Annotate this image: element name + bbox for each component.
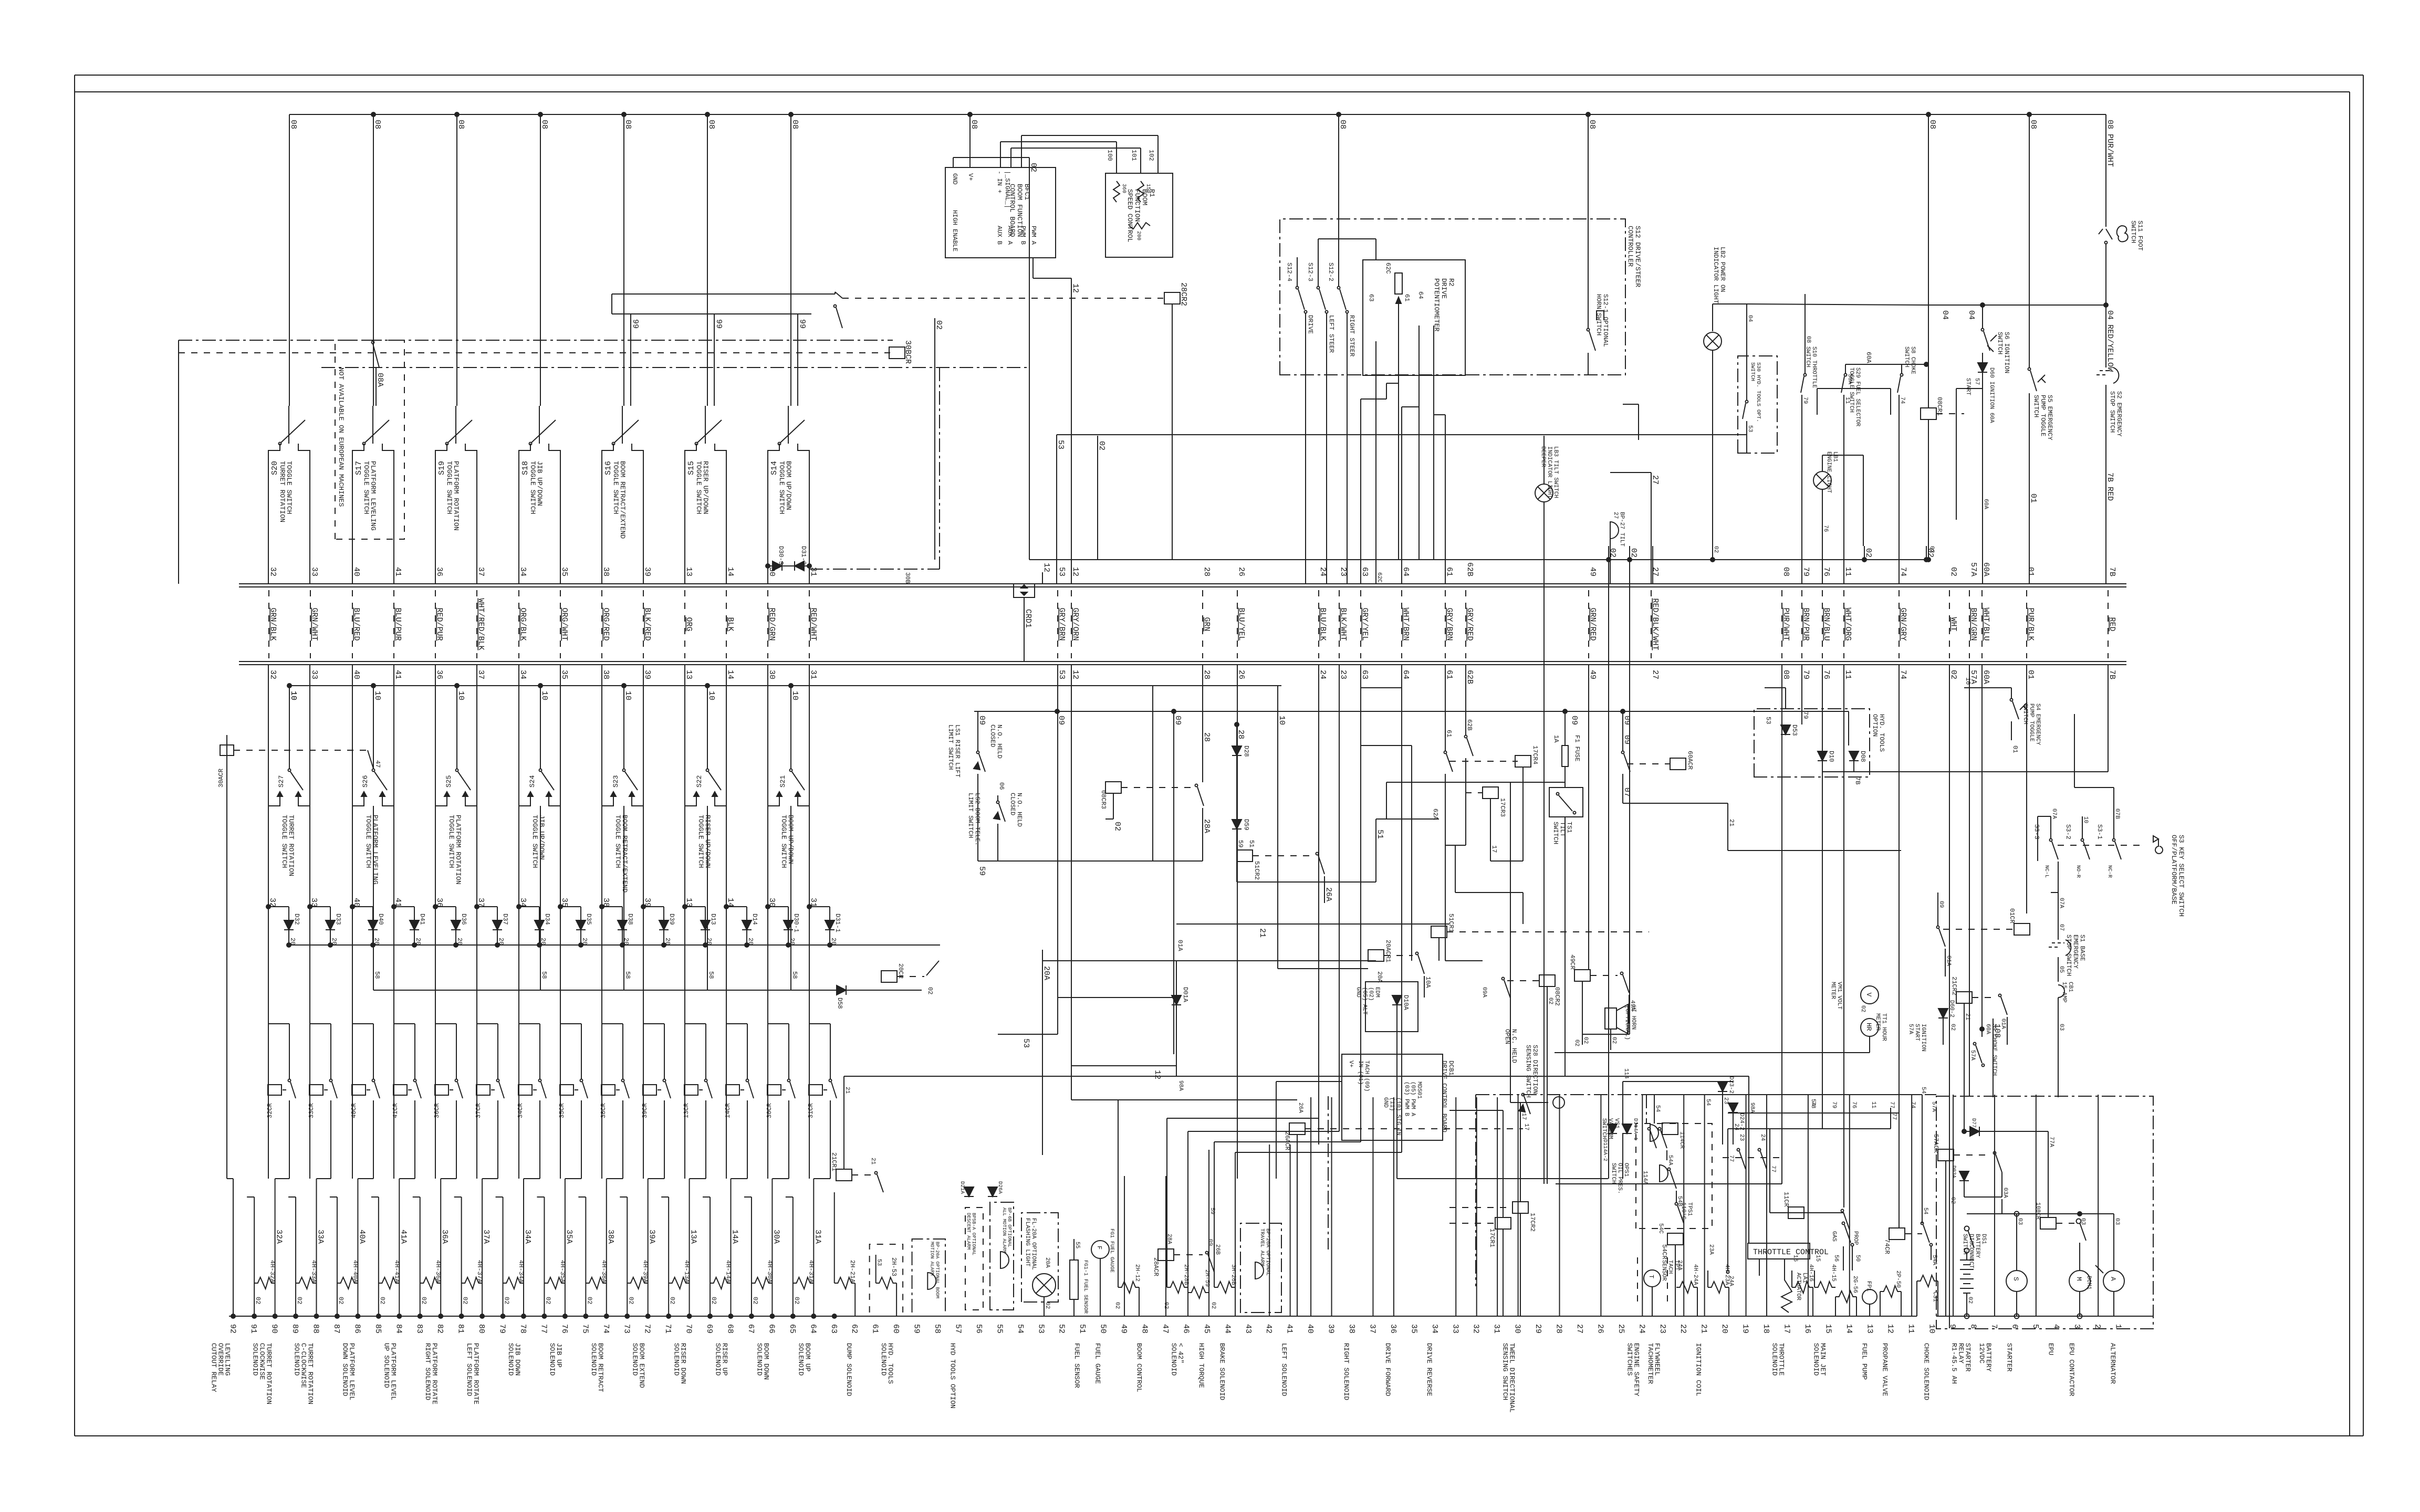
svg-text:07A: 07A <box>2058 898 2064 908</box>
beeper BP-27 TILT <box>1610 512 1625 560</box>
svg-text:53: 53 <box>1056 440 1065 449</box>
board EDM <box>1355 982 1418 1032</box>
svg-text:47: 47 <box>1161 1324 1170 1333</box>
key switch S3 KEY SELECT SWITCH <box>2033 808 2185 917</box>
diode D01A <box>1172 940 1189 1029</box>
wire column 31 lower half <box>1497 1097 1498 1316</box>
svg-text:10: 10 <box>707 691 716 700</box>
svg-text:76: 76 <box>1822 525 1829 532</box>
svg-text:24: 24 <box>1318 567 1327 576</box>
svg-text:15: 15 <box>1814 1255 1821 1262</box>
wire 36 box pin left <box>435 577 436 584</box>
svg-text:60A: 60A <box>1981 670 1990 684</box>
solenoid coil 4H-41A <box>379 1260 400 1289</box>
switch VS1 VACUUM SWITCH <box>1601 1095 1673 1165</box>
svg-text:S12-2: S12-2 <box>1327 262 1334 281</box>
svg-text:ALTERNATOR: ALTERNATOR <box>2109 1343 2117 1384</box>
svg-text:D114A-2: D114A-2 <box>1602 1139 1608 1161</box>
svg-text:D33: D33 <box>335 913 342 925</box>
svg-text:4H-39A: 4H-39A <box>642 1260 649 1283</box>
svg-text:10: 10 <box>373 691 382 700</box>
terminal 60A crossing wire WHT/BLU <box>1981 562 1990 684</box>
svg-text:08: 08 <box>969 120 978 129</box>
wire 20 horizontal bus <box>287 943 940 947</box>
wire 77A S4 connection <box>2001 1172 2002 1197</box>
svg-text:01A: 01A <box>1945 955 1952 966</box>
svg-text:D60 IGNITION 60A: D60 IGNITION 60A <box>1988 367 1995 423</box>
svg-text:V+: V+ <box>1348 1060 1354 1067</box>
svg-text:62B: 62B <box>1466 719 1473 731</box>
terminal 79 crossing wire BRN/PUR <box>1801 567 1810 679</box>
svg-text:F1 FUSE: F1 FUSE <box>1573 735 1581 761</box>
svg-text:38: 38 <box>601 670 610 679</box>
svg-text:08: 08 <box>1781 567 1790 576</box>
svg-text:FG1-1 FUEL SENSOR: FG1-1 FUEL SENSOR <box>1082 1260 1088 1314</box>
coil 2P-50 PROPANE <box>1880 1270 1901 1316</box>
svg-text:39: 39 <box>1327 1324 1336 1333</box>
wire 37 box pin right <box>476 577 477 584</box>
wires 100 101 102 BFC1 to R1 <box>1000 135 1158 173</box>
svg-text:28: 28 <box>1555 1324 1563 1333</box>
svg-text:60A: 60A <box>1981 562 1990 576</box>
svg-text:60ACR: 60ACR <box>1686 751 1694 770</box>
wire 79 column lower <box>1801 665 1802 724</box>
wire 34A to solenoid <box>523 1179 532 1316</box>
wire 28 column and relay 08CR3 <box>1100 665 1211 861</box>
svg-text:LS1 RISER LIFTLIMIT SWITCH: LS1 RISER LIFTLIMIT SWITCH <box>947 724 961 778</box>
switch S1 BASE EMERGENCY STOP SWITCH <box>2049 892 2086 982</box>
toggle switch S18 box <box>519 444 560 577</box>
dashed box around TPS area <box>1636 1123 1712 1228</box>
diode D03A <box>1950 1165 2008 1198</box>
terminal 12 crossing wire GRY/ORN <box>1071 567 1080 679</box>
svg-text:14CR: 14CR <box>724 1103 732 1118</box>
svg-text:33CR: 33CR <box>308 1103 315 1118</box>
terminal 33 crossing wire GRN/WHT <box>310 567 319 679</box>
svg-text:T: T <box>1647 1275 1655 1278</box>
relays 17CR4 17CR3 <box>1465 745 1539 853</box>
diode D58 on 58 bus <box>836 985 846 1009</box>
svg-text:34CR: 34CR <box>517 1103 524 1118</box>
solenoid coil 4H-30A <box>752 1260 773 1289</box>
terminal 40 crossing wire BLU/RED <box>352 567 361 679</box>
svg-text:D41: D41 <box>419 913 426 925</box>
svg-text:12: 12 <box>1153 1070 1162 1079</box>
wire column 16 lower half <box>1808 1095 1809 1316</box>
toggle switch S19 box <box>435 444 477 577</box>
relay 51CR1 <box>1431 913 1649 961</box>
svg-text:FL-20A OPTIONALFLASHING LIGHT: FL-20A OPTIONALFLASHING LIGHT <box>1024 1218 1037 1270</box>
svg-text:51: 51 <box>1248 840 1255 847</box>
terminal 35 crossing wire ORG/WHT <box>560 567 569 679</box>
svg-text:BLK/RED: BLK/RED <box>643 608 652 641</box>
terminal 74 crossing wire GRN/GRY <box>1899 567 1907 679</box>
svg-text:28A: 28A <box>1202 819 1211 833</box>
svg-text:DUMP SOLENOID: DUMP SOLENOID <box>845 1343 853 1396</box>
svg-text:39: 39 <box>643 567 652 576</box>
wire 13 box pin left <box>684 577 685 584</box>
wire 02 long column lower <box>1949 665 1950 1328</box>
svg-text:S26: S26 <box>361 775 369 787</box>
relay 60ACR <box>1621 709 1728 803</box>
wire 54 horizontal feed <box>1654 1087 1926 1223</box>
wire column 49 lower half <box>1124 1176 1125 1316</box>
wire 02 return 4H-35A <box>537 1197 567 1318</box>
wire 7B column lower <box>1854 665 2108 772</box>
svg-text:14: 14 <box>1844 1324 1853 1333</box>
svg-text:30BCR: 30BCR <box>903 340 912 364</box>
svg-text:D13: D13 <box>710 913 717 925</box>
svg-text:02: 02 <box>1114 1302 1120 1309</box>
svg-text:3: 3 <box>2072 1324 2081 1329</box>
svg-text:CHOKE SOLENOID: CHOKE SOLENOID <box>1923 1343 1931 1400</box>
switch S11 FOOT SWITCH <box>2099 220 2144 305</box>
svg-text:PROP: PROP <box>1852 1231 1859 1245</box>
svg-text:D40: D40 <box>377 913 384 925</box>
labels 78 79 76 11 77 74 57A row <box>1810 1101 1937 1112</box>
svg-text:55: 55 <box>1074 1242 1080 1248</box>
svg-text:50: 50 <box>1099 1324 1108 1333</box>
wire column 5 lower half <box>2036 1095 2037 1316</box>
wire 27 column upper <box>1610 472 1660 584</box>
svg-text:33: 33 <box>310 567 319 576</box>
coil 3H-26B <box>1214 1244 1236 1316</box>
svg-text:61: 61 <box>871 1324 880 1333</box>
svg-text:27: 27 <box>1651 670 1660 679</box>
svg-text:37CR: 37CR <box>475 1103 482 1118</box>
board DCB1 DRIVE CONTROL BOARD <box>1342 1054 1455 1140</box>
wire column 28 lower half <box>1559 1095 1560 1316</box>
svg-text:39: 39 <box>643 670 652 679</box>
svg-text:73: 73 <box>622 1324 631 1333</box>
svg-text:BLK: BLK <box>726 617 735 632</box>
svg-text:2H-21A: 2H-21A <box>849 1260 856 1283</box>
svg-text:88: 88 <box>311 1324 320 1333</box>
svg-text:12: 12 <box>1886 1324 1895 1333</box>
bottom ground bus 02 <box>229 1316 1917 1317</box>
svg-text:13: 13 <box>684 670 693 679</box>
svg-text:10: 10 <box>1964 677 1972 685</box>
svg-text:68: 68 <box>726 1324 735 1333</box>
svg-text:61: 61 <box>1445 567 1454 576</box>
svg-text:27: 27 <box>1651 475 1660 485</box>
svg-text:54: 54 <box>1922 1207 1928 1215</box>
wire 17 runs <box>1449 819 1527 1217</box>
svg-text:54: 54 <box>1810 1099 1816 1106</box>
svg-text:THROTTLESOLENOID: THROTTLESOLENOID <box>1770 1343 1785 1376</box>
svg-text:67: 67 <box>746 1324 755 1333</box>
svg-text:08CR2: 08CR2 <box>1553 987 1561 1006</box>
wire 26B 59 vertical stubs <box>1209 1150 1215 1293</box>
svg-text:57: 57 <box>1974 378 1980 385</box>
svg-text:39A: 39A <box>648 1230 656 1244</box>
svg-text:S28 DIRECTIONSENSING SWITCH: S28 DIRECTIONSENSING SWITCH <box>1525 1045 1539 1098</box>
svg-text:TOGGLE SWITCHTURRET ROTATION: TOGGLE SWITCHTURRET ROTATION <box>278 461 293 522</box>
svg-text:04: 04 <box>1967 310 1976 320</box>
svg-text:25: 25 <box>1616 1324 1625 1333</box>
relays 17CR2 17CR1 <box>1449 1202 1536 1316</box>
svg-text:08CR3: 08CR3 <box>1100 790 1107 809</box>
wire 13A to solenoid <box>689 1179 698 1316</box>
svg-text:BOOM CONTROL: BOOM CONTROL <box>1135 1343 1143 1392</box>
svg-text:60A: 60A <box>1865 352 1872 363</box>
svg-text:35A: 35A <box>565 1230 573 1244</box>
svg-text:07B: 07B <box>2114 808 2120 819</box>
svg-text:100: 100 <box>1106 150 1113 161</box>
coils 4H-24A 4H-23A 4H-16 4H-15 <box>0 0 1 1</box>
svg-text:54: 54 <box>1705 1099 1711 1106</box>
tilt switch TS1 <box>1549 787 1583 861</box>
svg-text:76: 76 <box>1851 1101 1857 1108</box>
svg-text:40: 40 <box>352 670 361 679</box>
svg-text:77: 77 <box>539 1324 548 1333</box>
svg-text:21: 21 <box>1728 819 1735 826</box>
svg-text:2P-50: 2P-50 <box>1895 1270 1901 1288</box>
svg-text:58: 58 <box>373 971 381 979</box>
wire 37 column to jog <box>476 806 477 1179</box>
svg-text:86: 86 <box>352 1324 361 1333</box>
diode D40 stub <box>350 905 384 945</box>
svg-text:D23-2: D23-2 <box>1728 1076 1734 1094</box>
svg-text:57A: 57A <box>1969 1050 1976 1060</box>
svg-text:41: 41 <box>393 567 402 576</box>
svg-text:HYD TOOLS OPTION: HYD TOOLS OPTION <box>948 1343 956 1409</box>
svg-text:8: 8 <box>1969 1324 1978 1329</box>
lamp LB3 TILT SWITCH INDICATOR LIGHT <box>1535 436 1559 560</box>
svg-text:51CR2: 51CR2 <box>1253 861 1260 880</box>
svg-text:38: 38 <box>601 567 610 576</box>
svg-text:09A: 09A <box>1481 987 1487 997</box>
svg-text:66: 66 <box>767 1324 776 1333</box>
svg-text:79: 79 <box>1831 1101 1837 1108</box>
svg-text:S24: S24 <box>528 775 536 787</box>
relay contact 35CR <box>558 806 588 1179</box>
svg-text:02: 02 <box>926 987 934 994</box>
switch S29 FUEL SELECTOR TOGGLE SWITCH <box>1841 364 1861 584</box>
svg-text:02: 02 <box>710 1297 717 1304</box>
svg-text:22: 22 <box>1678 1324 1687 1333</box>
svg-text:D30-3: D30-3 <box>777 546 785 565</box>
svg-text:36: 36 <box>1389 1324 1397 1333</box>
wire 02 return 4H-38A <box>578 1197 608 1318</box>
horn HI HORN OPTIONAL <box>1605 1004 1636 1050</box>
svg-text:LEFT STEER: LEFT STEER <box>1328 315 1335 353</box>
svg-text:08: 08 <box>1928 120 1937 129</box>
wire 21 right horizontal <box>1728 803 1901 850</box>
svg-text:02: 02 <box>669 1297 676 1304</box>
svg-text:04: 04 <box>1941 310 1949 320</box>
wire 40 column to jog <box>352 806 353 1179</box>
wire 38 box pin left <box>601 577 602 584</box>
svg-text:63: 63 <box>1360 567 1369 576</box>
svg-text:20A: 20A <box>1044 1257 1050 1268</box>
switch 08A on option line <box>372 341 385 406</box>
svg-text:17CR4: 17CR4 <box>1531 745 1539 764</box>
svg-text:4H-15: 4H-15 <box>1830 1264 1837 1282</box>
svg-text:03: 03 <box>2017 1218 2023 1225</box>
svg-text:01: 01 <box>2026 670 2035 679</box>
svg-text:27: 27 <box>1575 1324 1584 1333</box>
relay 08CR1 <box>1921 397 1964 562</box>
svg-text:65: 65 <box>788 1324 797 1333</box>
wire column 14 lower half <box>1849 1095 1850 1316</box>
svg-text:D21A: D21A <box>959 1181 965 1194</box>
svg-text:38A: 38A <box>606 1230 615 1244</box>
svg-text:S18: S18 <box>521 461 530 475</box>
svg-text:02: 02 <box>1113 822 1122 831</box>
svg-text:60A: 60A <box>1983 499 1989 509</box>
svg-text:09: 09 <box>1938 901 1944 908</box>
wire 39 box pin right <box>643 577 644 584</box>
wire column 2 lower half <box>2098 1095 2099 1316</box>
svg-text:PLATFORM ROTATERIGHT SOLENOID: PLATFORM ROTATERIGHT SOLENOID <box>424 1343 439 1404</box>
toggle switch S24 feed and lever <box>528 686 554 790</box>
switch TPS1 110C <box>1657 1202 1693 1234</box>
toggle switch S16 lever <box>612 406 639 445</box>
svg-text:77A: 77A <box>2048 1137 2054 1147</box>
svg-text:19: 19 <box>1741 1324 1750 1333</box>
wire 13 column to jog <box>684 806 685 1179</box>
wire 37A to solenoid <box>482 1179 491 1316</box>
svg-text:53: 53 <box>1057 567 1066 576</box>
svg-text:S19: S19 <box>437 461 446 475</box>
wire 02 return 4H-32A <box>247 1197 277 1318</box>
svg-text:51: 51 <box>1375 829 1384 839</box>
svg-text:21: 21 <box>1964 1013 1970 1021</box>
terminal 62B crossing wire GRY/RED <box>1465 562 1474 684</box>
solenoid coil 4H-31A <box>793 1260 815 1289</box>
svg-text:BOOM UP/DOWNTOGGLE SWITCH: BOOM UP/DOWNTOGGLE SWITCH <box>778 461 792 514</box>
svg-text:08: 08 <box>2029 120 2038 129</box>
switch S12-3 LEFT STEER <box>1307 239 1335 375</box>
svg-text:03A: 03A <box>2002 1188 2008 1198</box>
wire 35 column to jog <box>560 806 561 1179</box>
wire 32 column to jog <box>268 806 269 1179</box>
terminal 41 crossing wire BLU/PUR <box>393 567 402 679</box>
jog wire 33A <box>317 1178 331 1179</box>
terminal 38 crossing wire ORG/RED <box>601 567 610 679</box>
svg-text:ORG: ORG <box>684 617 693 632</box>
toggle switch S17 box <box>352 444 394 577</box>
svg-text:30: 30 <box>1513 1324 1522 1333</box>
diode D41 stub <box>392 905 426 945</box>
wire 08 column to 08CR2 <box>1556 665 1782 1184</box>
svg-text:D31-3: D31-3 <box>800 546 807 565</box>
svg-text:BLU/YEL: BLU/YEL <box>1237 608 1246 641</box>
svg-text:47: 47 <box>374 760 381 768</box>
svg-text:70: 70 <box>684 1324 693 1333</box>
svg-text:80: 80 <box>477 1324 486 1333</box>
svg-text:BRN/GRN: BRN/GRN <box>1969 608 1978 641</box>
svg-text:21: 21 <box>844 1087 850 1094</box>
wire pair merge below S26 <box>352 665 394 806</box>
solenoid coil 4H-39A <box>627 1260 649 1289</box>
svg-text:7: 7 <box>1989 1324 1998 1329</box>
relay 30BCR <box>889 340 912 364</box>
coil 4H-23A <box>1708 1244 1730 1316</box>
diode D37 stub <box>475 905 509 945</box>
wire 50A ignition branch <box>1817 374 1891 415</box>
svg-text:S16: S16 <box>604 461 613 475</box>
svg-text:31CR: 31CR <box>807 1103 815 1118</box>
svg-text:23: 23 <box>1339 567 1348 576</box>
svg-text:58: 58 <box>707 971 715 979</box>
svg-text:02: 02 <box>254 1297 262 1304</box>
coil 4H-16 <box>1792 1255 1814 1316</box>
wire 35A to solenoid <box>565 1179 573 1316</box>
svg-text:59: 59 <box>912 1324 921 1333</box>
wire 12 to 2H-12 coil <box>1071 1066 1118 1100</box>
svg-text:02: 02 <box>503 1297 510 1304</box>
svg-text:46: 46 <box>1181 1324 1190 1333</box>
wire 08 drop to 08CR1 <box>1926 112 1937 408</box>
svg-text:4H-24A: 4H-24A <box>1692 1264 1698 1285</box>
wire 09 right extension <box>1623 711 1849 745</box>
svg-text:40A: 40A <box>357 1230 366 1244</box>
svg-text:23: 23 <box>1723 1097 1729 1104</box>
svg-text:12: 12 <box>1071 567 1080 576</box>
GAS PROP selector <box>1831 1222 1861 1271</box>
svg-text:ORG/WHT: ORG/WHT <box>560 608 569 641</box>
svg-text:NO-R: NO-R <box>2075 865 2081 878</box>
svg-text:91: 91 <box>249 1324 258 1333</box>
svg-text:99: 99 <box>631 319 640 329</box>
solenoid coil 4H-40A <box>337 1260 359 1289</box>
svg-text:7B: 7B <box>1854 777 1861 784</box>
svg-text:34: 34 <box>1430 1324 1439 1333</box>
svg-text:76: 76 <box>560 1324 569 1333</box>
svg-text:64: 64 <box>1401 567 1410 576</box>
svg-text:4H-37A: 4H-37A <box>476 1260 483 1283</box>
svg-text:98A: 98A <box>1177 1080 1184 1091</box>
svg-text:STARTER: STARTER <box>2005 1343 2013 1372</box>
svg-text:30CR: 30CR <box>766 1103 773 1118</box>
connector CRD1 between buses <box>1014 584 1035 661</box>
svg-text:D60-2: D60-2 <box>1948 1000 1955 1017</box>
switch S28 DIRECTION SENSING SWITCH <box>1504 1029 1564 1130</box>
wire 41 column to jog <box>393 806 394 1179</box>
terminal 36 crossing wire RED/PUR <box>435 567 444 679</box>
svg-text:D53: D53 <box>1791 724 1798 736</box>
svg-text:01CR: 01CR <box>2008 908 2016 923</box>
diode D10A <box>1392 995 1410 1011</box>
jog wire 36A <box>441 1178 456 1179</box>
svg-text:D01A: D01A <box>1182 987 1189 1003</box>
wire 01 column lower <box>2026 665 2027 913</box>
terminal bus upper double line <box>239 584 2126 587</box>
diode D31-1 stub <box>807 905 841 945</box>
svg-text:36CR: 36CR <box>433 1103 441 1118</box>
wire 108 vertical <box>1993 1018 2001 1097</box>
wire 10A branch <box>1278 686 1368 969</box>
svg-text:54C: 54C <box>1657 1223 1664 1234</box>
wire 27 bp27 drop <box>1610 560 1611 584</box>
svg-text:IGNITION COIL: IGNITION COIL <box>1695 1343 1703 1396</box>
svg-text:4H-38A: 4H-38A <box>600 1260 608 1283</box>
svg-text:D59: D59 <box>1243 819 1250 831</box>
svg-text:2H-12: 2H-12 <box>1134 1264 1140 1282</box>
svg-text:40CR: 40CR <box>350 1103 358 1118</box>
jog wire 32A <box>275 1178 289 1179</box>
wire 51 loop <box>1237 819 1439 882</box>
wire column 36 lower half <box>1393 1097 1394 1316</box>
svg-text:77: 77 <box>1728 1155 1734 1162</box>
svg-text:BP-6B OPTIONALALL MOTION ALARM: BP-6B OPTIONALALL MOTION ALARM <box>1002 1207 1012 1253</box>
svg-text:S17: S17 <box>354 461 363 475</box>
svg-text:02: 02 <box>1163 1302 1169 1309</box>
svg-text:04: 04 <box>1747 315 1753 322</box>
svg-text:DRIVE FORWARD: DRIVE FORWARD <box>1384 1343 1392 1396</box>
